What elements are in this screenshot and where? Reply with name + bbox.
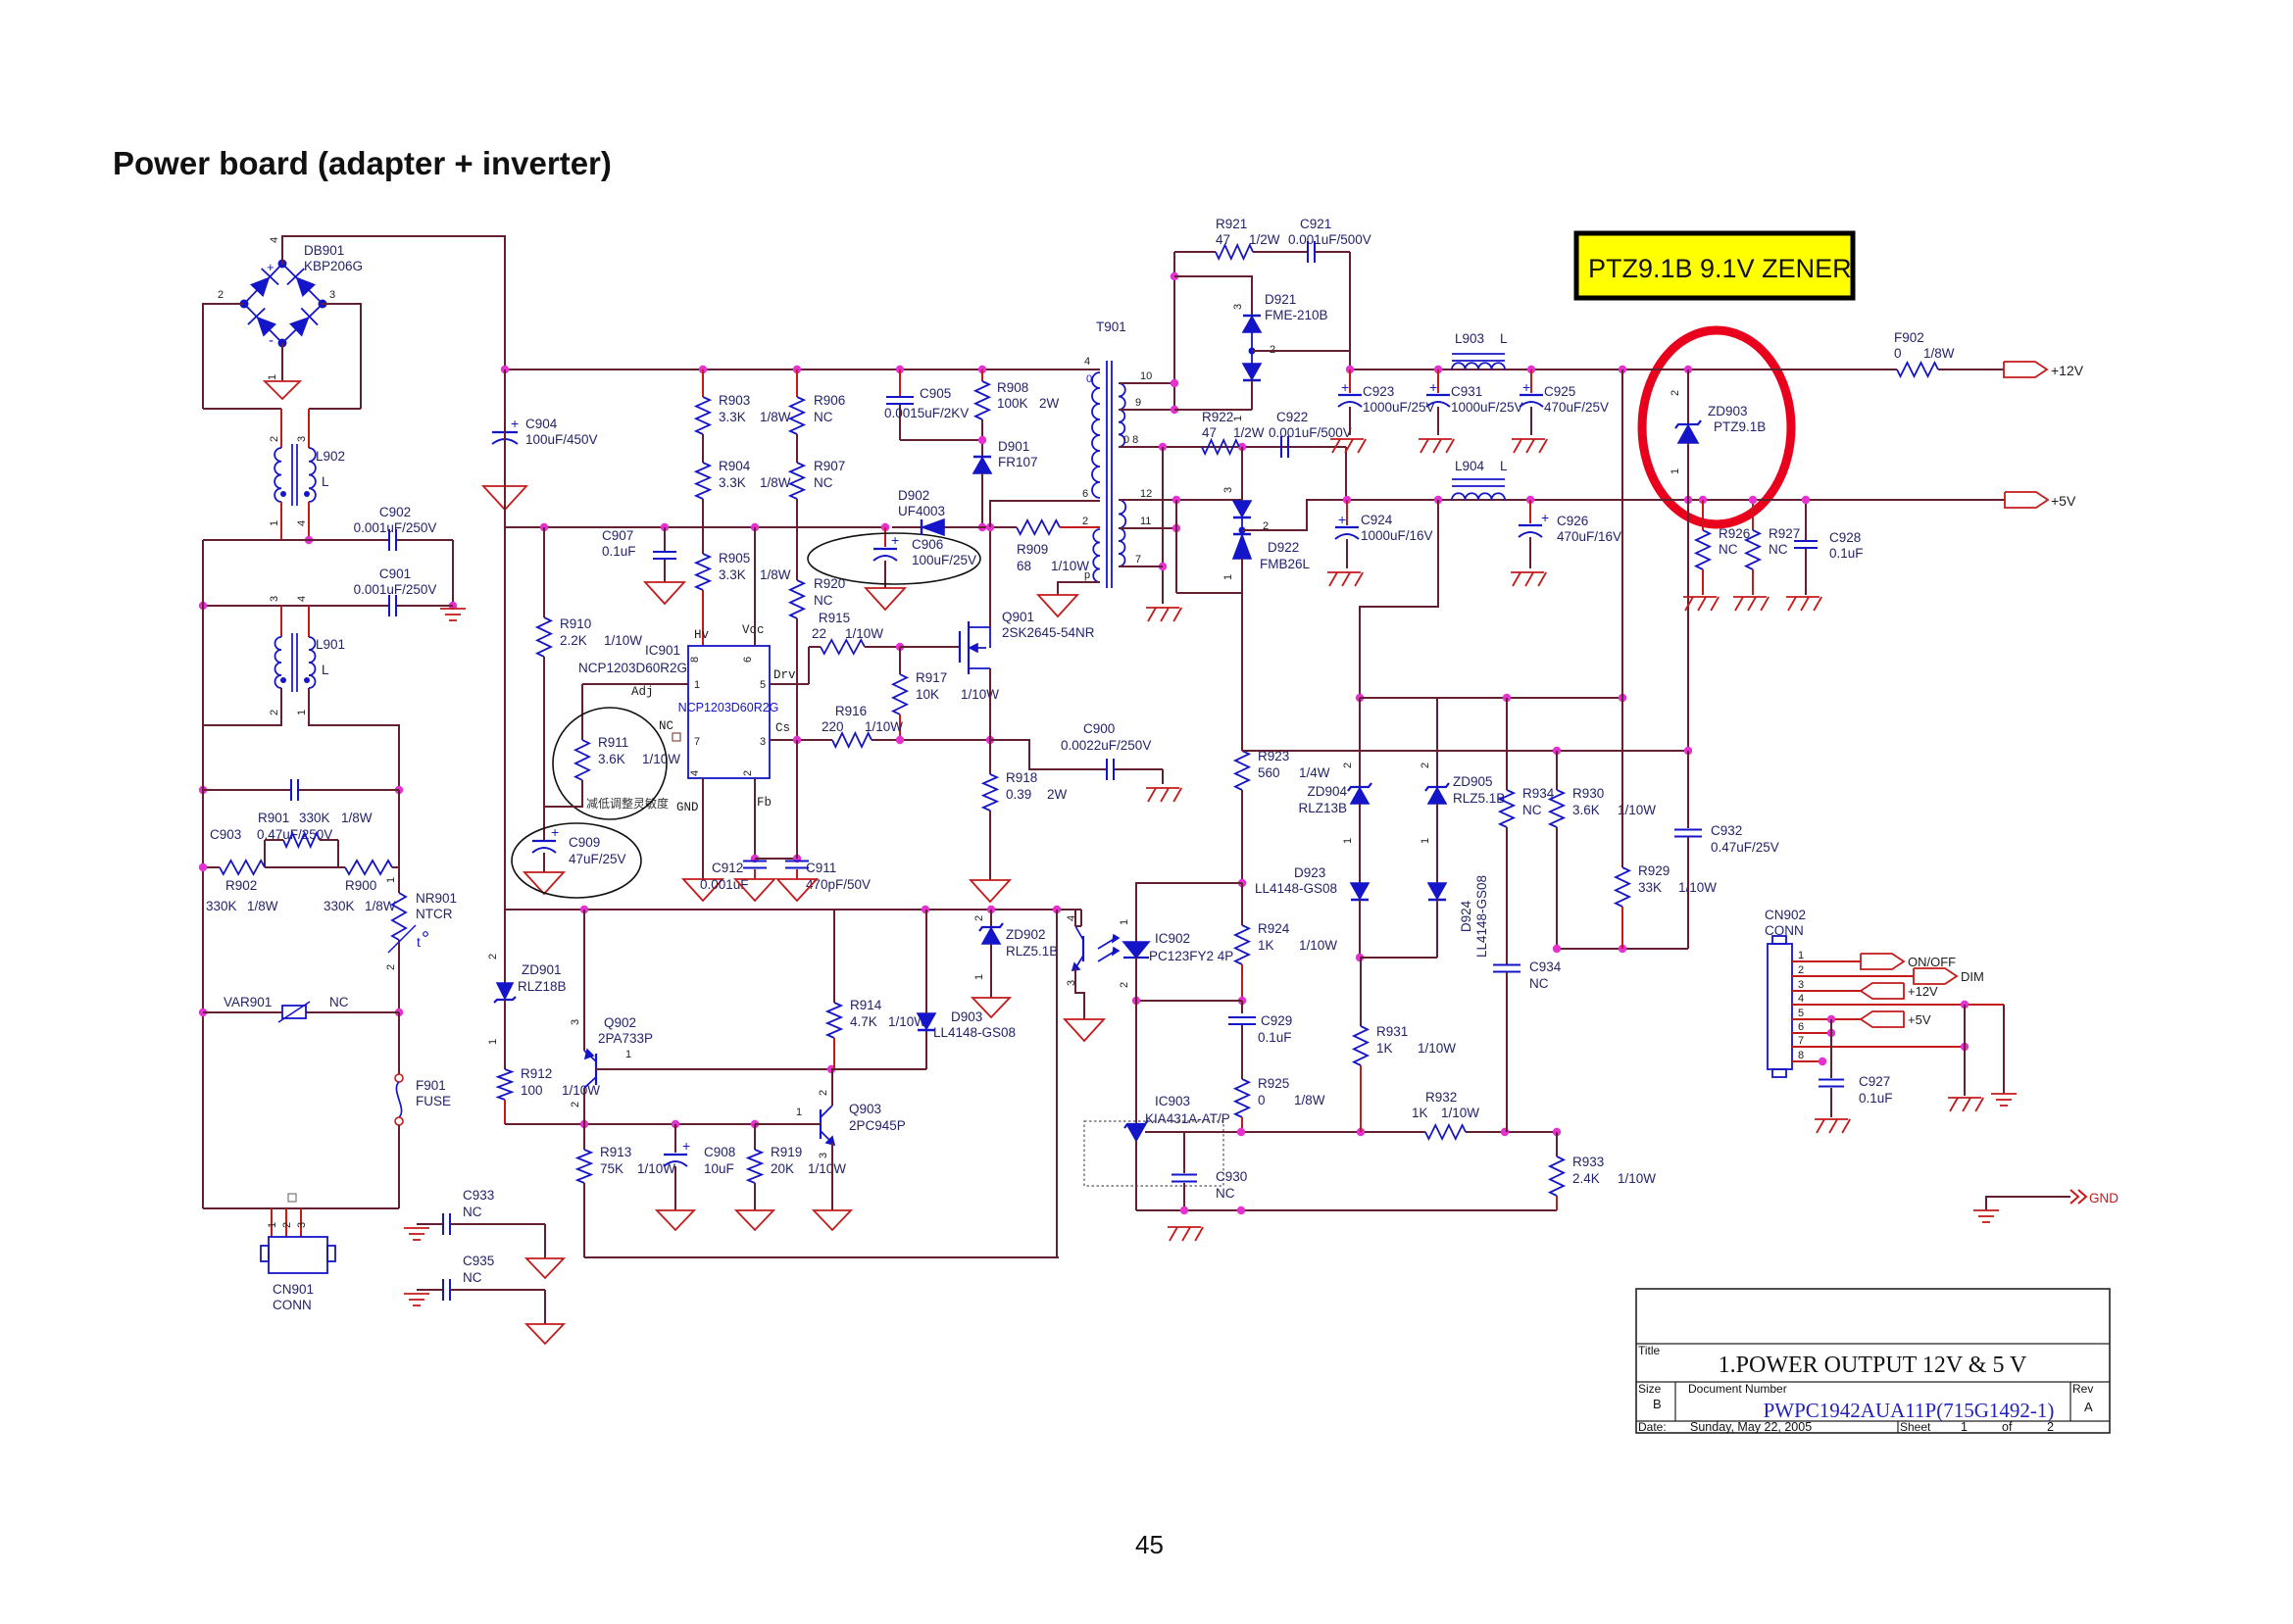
svg-text:2: 2: [1119, 982, 1130, 988]
capacitor C931: [1426, 369, 1450, 435]
wire pin2 Fb: [754, 778, 756, 859]
junction: [199, 1009, 207, 1016]
wire pin11: [1119, 527, 1176, 529]
CN902 pin8: [1792, 1050, 1822, 1061]
label GND: [2089, 1191, 2119, 1206]
svg-text:1/10W: 1/10W: [642, 752, 680, 766]
pin 3 label: [329, 289, 335, 301]
wire ZD903 pin1 down: [1687, 500, 1689, 751]
svg-text:R931: R931: [1376, 1024, 1408, 1039]
capacitor C908: [664, 1124, 690, 1210]
thermistor NR901: [385, 877, 457, 950]
capacitor C923: [1338, 369, 1362, 435]
svg-text:+: +: [1522, 379, 1530, 395]
svg-text:R916: R916: [835, 704, 867, 718]
svg-text:1/10W: 1/10W: [808, 1161, 846, 1176]
capacitor C933: [417, 1213, 545, 1258]
label DIM: [1961, 969, 1984, 984]
svg-text:R921: R921: [1216, 217, 1247, 231]
diode D922: [1233, 501, 1251, 559]
label C904: [525, 417, 598, 447]
svg-text:Sheet: Sheet: [1900, 1420, 1931, 1434]
label R906: [814, 393, 845, 424]
svg-text:0.001uF/250V: 0.001uF/250V: [354, 520, 437, 535]
svg-text:0.1uF: 0.1uF: [602, 544, 636, 559]
label +5V: [2051, 493, 2076, 509]
svg-text:R927: R927: [1769, 526, 1800, 541]
label C911: [806, 861, 871, 892]
svg-text:C903: C903: [210, 827, 241, 842]
resistor R908: [975, 369, 989, 419]
label L904: [1455, 459, 1508, 473]
GND chevrons: [2070, 1190, 2086, 1204]
label Q902: [598, 1015, 653, 1046]
rail 1078: [1056, 910, 1058, 1257]
label R931: [1376, 1024, 1456, 1056]
wire C922 down: [1345, 447, 1347, 499]
label D921: [1265, 292, 1328, 322]
svg-text:47: 47: [1216, 232, 1230, 247]
wire C921 down: [1349, 252, 1351, 369]
T901 pin12 label: [1140, 488, 1152, 500]
label L902: [316, 449, 345, 489]
bridge rectifier DB901: [240, 260, 327, 350]
resistor R902: [220, 861, 265, 874]
svg-text:R918: R918: [1006, 770, 1037, 785]
junction: [751, 1120, 759, 1128]
diode D902: [922, 519, 944, 535]
svg-text:R924: R924: [1258, 921, 1290, 936]
wire L901 pin3 stub: [280, 606, 282, 637]
ground T901 primary: [1038, 595, 1077, 616]
label T901: [1096, 320, 1126, 334]
svg-text:75K: 75K: [600, 1161, 623, 1176]
svg-text:6: 6: [742, 657, 754, 663]
svg-text:33K: 33K: [1638, 880, 1662, 895]
transformer T901 core: [1107, 361, 1112, 588]
label C924: [1361, 513, 1433, 543]
svg-text:DB901: DB901: [304, 243, 344, 258]
ground bridge: [265, 381, 300, 399]
svg-text:NC: NC: [814, 593, 833, 608]
junction: [1237, 1206, 1245, 1214]
wire GND: [1986, 1197, 2070, 1210]
svg-text:2PA733P: 2PA733P: [598, 1031, 653, 1046]
junction: [1684, 496, 1692, 504]
flag +12V in: [1861, 983, 1904, 999]
svg-text:8: 8: [1798, 1050, 1804, 1061]
label Q901: [1002, 610, 1095, 640]
chassis ground C925: [1512, 439, 1547, 453]
svg-text:0.001uF/250V: 0.001uF/250V: [354, 582, 437, 597]
svg-text:470uF/25V: 470uF/25V: [1544, 400, 1609, 415]
ground R918: [971, 880, 1010, 902]
svg-text:C900: C900: [1083, 721, 1115, 736]
resistor R906: [790, 369, 804, 434]
label IC902: [1149, 931, 1233, 963]
svg-text:1: 1: [973, 974, 985, 980]
IC901 pin numbers: [689, 657, 766, 776]
svg-text:D902: D902: [898, 488, 929, 503]
wire R908-D901: [981, 419, 983, 457]
junction: [1819, 1058, 1826, 1065]
T901 pin2 label: [1082, 516, 1088, 527]
svg-text:D901: D901: [998, 439, 1029, 454]
svg-text:C933: C933: [463, 1188, 494, 1203]
svg-text:0.39: 0.39: [1006, 787, 1031, 802]
svg-text:ZD903: ZD903: [1708, 404, 1748, 418]
junction: [793, 855, 801, 862]
resistor R918: [983, 740, 997, 880]
svg-text:3.3K: 3.3K: [719, 410, 746, 424]
svg-text:+: +: [891, 532, 899, 548]
wire row417 right: [309, 408, 361, 410]
svg-text:C904: C904: [525, 417, 558, 431]
label CN902: [1765, 908, 1806, 938]
wire D922 bottom to R923: [1241, 593, 1243, 751]
wire Adj pin1 row: [582, 683, 688, 685]
Q903 pin3 label: [818, 1153, 829, 1158]
junction: [987, 906, 995, 913]
svg-text:0.001uF/500V: 0.001uF/500V: [1269, 425, 1352, 440]
svg-text:GND: GND: [676, 801, 699, 814]
svg-text:Cs: Cs: [775, 721, 790, 735]
label IC903: [1145, 1094, 1230, 1126]
zener IC903: [1124, 1001, 1148, 1210]
resistor R919: [748, 1124, 762, 1210]
title block DocNumber: [1688, 1382, 1787, 1396]
title block Rev: [2072, 1382, 2093, 1414]
label C926: [1557, 514, 1621, 544]
svg-text:D921: D921: [1265, 292, 1296, 307]
svg-text:4.7K: 4.7K: [850, 1014, 877, 1029]
svg-text:D922: D922: [1268, 540, 1299, 555]
capacitor C904: [492, 416, 519, 444]
label C929: [1258, 1013, 1292, 1045]
wire bus-to-Vcc drop: [504, 369, 506, 527]
svg-text:12: 12: [1140, 488, 1152, 500]
chassis ground C900: [1146, 788, 1181, 802]
connector CN902 body: [1768, 936, 1792, 1077]
svg-text:1/10W: 1/10W: [961, 687, 999, 702]
svg-text:C908: C908: [704, 1145, 735, 1159]
junction: [1684, 747, 1692, 755]
wire row618: [203, 605, 453, 607]
svg-text:1: 1: [1119, 919, 1130, 925]
T901 secondary 10-9 winding: [1119, 383, 1125, 447]
wire Q903 collector: [831, 1069, 833, 1106]
svg-text:R901: R901: [258, 811, 289, 825]
wire T901 pinP: [1058, 582, 1100, 595]
fuse F901: [395, 1012, 403, 1208]
resistor R905: [696, 554, 710, 590]
svg-text:7: 7: [1135, 554, 1141, 566]
ZD901 pin1 label: [487, 1039, 499, 1045]
svg-text:10K: 10K: [916, 687, 939, 702]
chassis ground CN902: [1948, 1098, 1983, 1111]
svg-text:R933: R933: [1572, 1155, 1604, 1169]
zener ZD903: [1675, 369, 1701, 500]
transistor Q901: [960, 621, 990, 674]
svg-text:2: 2: [385, 964, 397, 970]
svg-text:1/8W: 1/8W: [760, 475, 791, 490]
label C928: [1829, 530, 1864, 561]
diode D903: [918, 910, 935, 1069]
ZD902 pin1 label: [973, 974, 985, 980]
label C921: [1288, 217, 1371, 247]
wire L902 pin1 stub: [280, 502, 282, 540]
chassis ground C931: [1419, 439, 1454, 453]
wire C900 link: [990, 740, 1163, 784]
svg-text:5: 5: [760, 679, 766, 691]
D921 pin2 label: [1270, 344, 1275, 356]
svg-text:1/8W: 1/8W: [760, 567, 791, 582]
svg-text:22: 22: [812, 626, 826, 641]
title block Title: [1638, 1344, 1661, 1357]
svg-text:UF4003: UF4003: [898, 504, 945, 518]
wire base row to Q903: [755, 1123, 821, 1125]
connector CN901 pins: [267, 1194, 308, 1237]
svg-text:45: 45: [1135, 1530, 1164, 1559]
inductor L904: [1452, 479, 1505, 500]
label R920: [814, 576, 845, 608]
IC901 internal name: [678, 701, 779, 714]
chassis ground row1235: [1168, 1227, 1203, 1241]
svg-text:ON/OFF: ON/OFF: [1908, 955, 1956, 969]
svg-text:ZD901: ZD901: [522, 962, 562, 977]
label R934: [1522, 786, 1555, 817]
row 1147: [505, 1123, 821, 1125]
svg-text:1/10W: 1/10W: [845, 626, 883, 641]
junction: [1526, 496, 1534, 504]
wire Q901 source: [989, 668, 991, 740]
junction: [305, 536, 313, 544]
svg-text:100: 100: [521, 1083, 543, 1098]
row 1283: [584, 1256, 1059, 1258]
svg-text:LL4148-GS08: LL4148-GS08: [933, 1025, 1016, 1040]
svg-text:t: t: [417, 934, 421, 950]
junction: [793, 366, 801, 373]
junction: [1159, 443, 1167, 451]
label R900: [324, 878, 396, 913]
junction: [1827, 1029, 1835, 1037]
svg-text:ZD902: ZD902: [1006, 927, 1046, 942]
junction: [501, 366, 509, 373]
svg-text:R912: R912: [521, 1066, 552, 1081]
capacitor C935: [417, 1279, 545, 1324]
resistor R903: [696, 369, 710, 434]
label R925: [1258, 1076, 1325, 1107]
wire R911 bottom jog: [544, 780, 582, 807]
svg-text:1: 1: [694, 679, 700, 691]
label R905: [719, 551, 791, 582]
label C909: [569, 835, 626, 866]
resistor R900: [345, 861, 392, 874]
capacitor C902: [389, 529, 396, 551]
svg-text:1/10W: 1/10W: [1299, 938, 1337, 953]
svg-text:0.1uF: 0.1uF: [1829, 546, 1864, 561]
svg-text:R906: R906: [814, 393, 845, 408]
wire L902 pin2 stub: [280, 409, 282, 448]
junction: [1053, 906, 1061, 913]
zener ZD904: [1348, 698, 1371, 883]
svg-text:FUSE: FUSE: [416, 1094, 451, 1108]
wire R903-R904: [702, 434, 704, 463]
capacitor C906: [873, 527, 899, 588]
svg-text:IC902: IC902: [1155, 931, 1190, 946]
svg-text:L: L: [322, 663, 329, 677]
wire pin12 row: [1119, 499, 1242, 501]
wire bridge pin2: [203, 304, 243, 409]
svg-text:CONN: CONN: [1765, 923, 1804, 938]
junction: [896, 736, 904, 744]
label C903: [210, 827, 332, 842]
svg-text:4: 4: [269, 237, 280, 243]
svg-text:7: 7: [694, 736, 700, 748]
label R907: [814, 459, 845, 490]
junction: [1501, 1128, 1509, 1136]
svg-text:C924: C924: [1361, 513, 1393, 527]
capacitor C901: [389, 595, 396, 616]
CN902 pin3: [1792, 979, 1861, 991]
wire Q902 base row: [596, 1068, 831, 1070]
T901 phase dot primary: [1086, 373, 1092, 385]
svg-text:C922: C922: [1276, 410, 1308, 424]
svg-text:VAR901: VAR901: [224, 995, 272, 1009]
svg-text:1000uF/25V: 1000uF/25V: [1451, 400, 1523, 415]
svg-text:LL4148-GS08: LL4148-GS08: [1255, 881, 1337, 896]
junction: [580, 1120, 588, 1128]
wire D922 mid out: [1242, 500, 1347, 530]
row 766: [1242, 750, 1688, 752]
label C925: [1544, 384, 1609, 415]
svg-text:3: 3: [760, 736, 766, 748]
svg-text:2SK2645-54NR: 2SK2645-54NR: [1002, 625, 1095, 640]
junction: [1357, 1128, 1365, 1136]
label R910: [560, 616, 642, 648]
label +5V cn: [1908, 1012, 1931, 1027]
label R902: [206, 878, 278, 913]
Q902 pin1 label: [625, 1049, 631, 1060]
svg-text:220: 220: [822, 719, 844, 734]
earth ground GND: [1973, 1210, 1999, 1222]
ground C908: [657, 1210, 694, 1230]
resistor R914: [827, 910, 841, 1069]
wire L904 tap: [1360, 500, 1438, 698]
label R915: [812, 611, 883, 641]
svg-text:PTZ9.1B: PTZ9.1B: [1714, 419, 1766, 434]
svg-text:+12V: +12V: [1908, 984, 1938, 999]
junction: [199, 786, 207, 794]
wire D921 bottom: [1174, 380, 1252, 410]
svg-text:NCP1203D60R2G: NCP1203D60R2G: [678, 701, 779, 714]
label C923: [1363, 384, 1435, 415]
svg-text:20K: 20K: [771, 1161, 794, 1176]
svg-text:+12V: +12V: [2051, 363, 2084, 378]
T901 pin9 label: [1135, 397, 1141, 409]
label +12V cn: [1908, 984, 1938, 999]
svg-text:1/10W: 1/10W: [604, 633, 642, 648]
highlight circle R911: [553, 708, 667, 819]
ground C906: [866, 588, 905, 610]
label R908: [997, 380, 1060, 411]
T901 pin6 label: [1082, 488, 1088, 500]
label C930: [1216, 1169, 1247, 1201]
ground IC902: [1065, 1019, 1104, 1041]
svg-text:2: 2: [1798, 964, 1804, 976]
svg-text:F901: F901: [416, 1078, 446, 1093]
wire NR901 bottom: [385, 925, 416, 1012]
diode D924: [1428, 883, 1446, 958]
page title: [113, 145, 612, 181]
label ZD902: [1006, 927, 1058, 959]
callout PTZ9.1B 9.1V ZENER: [1576, 233, 1853, 298]
svg-text:1: 1: [269, 520, 280, 526]
chassis ground C927: [1815, 1119, 1850, 1133]
svg-text:1/8W: 1/8W: [1294, 1093, 1325, 1107]
svg-text:GND: GND: [2089, 1191, 2119, 1206]
svg-text:1: 1: [296, 710, 308, 715]
capacitor C925: [1520, 369, 1543, 435]
svg-text:4: 4: [689, 770, 701, 776]
svg-text:0.47uF/25V: 0.47uF/25V: [1711, 840, 1779, 855]
svg-text:10: 10: [1140, 370, 1152, 382]
svg-text:R910: R910: [560, 616, 591, 631]
wire pin5 Drv: [770, 647, 821, 684]
svg-text:1: 1: [1232, 416, 1244, 421]
junction: [540, 523, 548, 531]
T901 secondary 12-7 winding: [1119, 500, 1125, 566]
ZD903 pin1 label: [1670, 468, 1681, 474]
junction: [1171, 379, 1178, 387]
svg-text:NC: NC: [814, 410, 833, 424]
junction: [1159, 563, 1167, 570]
svg-text:3: 3: [1222, 487, 1234, 493]
svg-text:3: 3: [818, 1153, 829, 1158]
svg-text:NC: NC: [1769, 542, 1788, 557]
svg-text:0.0022uF/250V: 0.0022uF/250V: [1061, 738, 1151, 753]
svg-text:0: 0: [1894, 346, 1902, 361]
ZD901 pin2 label: [487, 954, 499, 960]
svg-text:1: 1: [625, 1049, 631, 1060]
svg-text:Q903: Q903: [849, 1102, 881, 1116]
svg-text:RLZ5.1B: RLZ5.1B: [1006, 944, 1058, 959]
zener ZD901: [494, 910, 516, 1003]
resistor R907: [790, 463, 804, 499]
ground R919: [736, 1210, 773, 1230]
svg-text:1/10W: 1/10W: [1418, 1041, 1456, 1056]
T901 pin4 label: [1084, 356, 1090, 368]
transistor Q903: [821, 1106, 834, 1145]
junction: [1684, 366, 1692, 373]
label R926: [1719, 526, 1750, 557]
row 1155: [1145, 1131, 1557, 1133]
svg-text:Hv: Hv: [694, 628, 710, 642]
svg-text:2: 2: [1420, 763, 1431, 768]
svg-text:+5V: +5V: [1908, 1012, 1931, 1027]
ground C912: [735, 879, 774, 901]
capacitor C911: [785, 740, 809, 879]
svg-text:3.3K: 3.3K: [719, 567, 746, 582]
CN902 pin4: [1792, 993, 2004, 1005]
svg-text:1/2W: 1/2W: [1249, 232, 1280, 247]
T901 pinP label: [1084, 569, 1090, 581]
svg-text:B: B: [1653, 1397, 1662, 1411]
svg-text:1: 1: [487, 1039, 499, 1045]
svg-text:2PC945P: 2PC945P: [849, 1118, 906, 1133]
svg-text:Vcc: Vcc: [742, 623, 765, 637]
ZD903 pin2 label: [1670, 390, 1681, 396]
